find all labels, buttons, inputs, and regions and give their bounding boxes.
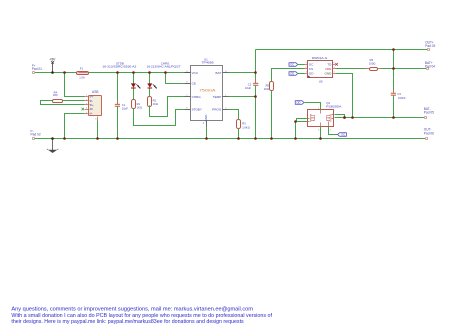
svg-text:6: 6 [333, 63, 334, 65]
svg-text:4: 4 [86, 108, 87, 110]
svg-text:1.0A: 1.0A [79, 75, 85, 79]
svg-text:3: 3 [86, 103, 87, 105]
svg-text:CS: CS [309, 67, 313, 71]
svg-text:DW01A-G: DW01A-G [312, 56, 328, 60]
svg-text:3: 3 [306, 72, 307, 74]
svg-text:R6: R6 [370, 58, 374, 62]
svg-text:OD: OD [290, 72, 294, 76]
svg-text:1: 1 [306, 63, 307, 65]
svg-text:1: 1 [86, 95, 87, 97]
svg-text:OC: OC [290, 63, 294, 67]
svg-text:BAT: BAT [216, 71, 222, 75]
svg-text:100Ω: 100Ω [369, 62, 376, 66]
svg-text:16-213/SDRC/S530-A3: 16-213/SDRC/S530-A3 [103, 66, 138, 69]
svg-text:1: 1 [330, 129, 331, 131]
svg-text:With a small donation I can al: With a small donation I can also do PCB … [11, 313, 272, 319]
svg-text:200: 200 [53, 93, 58, 97]
svg-text:VCC: VCC [192, 71, 199, 75]
svg-text:GND: GND [204, 114, 208, 122]
svg-text:10uF: 10uF [245, 86, 251, 90]
svg-text:FS8205A: FS8205A [326, 105, 341, 109]
svg-text:OC: OC [341, 133, 345, 137]
svg-text:100nF: 100nF [398, 96, 406, 100]
svg-text:OC: OC [309, 62, 314, 66]
svg-text:PROG: PROG [212, 107, 222, 111]
svg-text:5: 5 [318, 108, 319, 110]
svg-text:U5: U5 [319, 80, 323, 84]
svg-text:USB: USB [92, 90, 99, 94]
svg-text:2: 2 [306, 67, 307, 69]
svg-text:1KΩ: 1KΩ [137, 106, 142, 110]
svg-text:their designs. Here is my payp: their designs. Here is my paypal.me link… [11, 319, 244, 325]
svg-text:750mA: 750mA [199, 88, 216, 92]
svg-text:TEMP: TEMP [213, 95, 222, 99]
svg-text:2: 2 [225, 107, 227, 109]
svg-text:R2: R2 [153, 98, 157, 102]
svg-text:Pad 01: Pad 01 [32, 67, 42, 71]
svg-text:16-213/SHC-AN1/PQ/2T: 16-213/SHC-AN1/PQ/2T [147, 66, 182, 69]
svg-text:10uF: 10uF [122, 107, 128, 111]
svg-text:4: 4 [333, 72, 334, 74]
svg-text:C3: C3 [397, 92, 401, 96]
svg-text:C1: C1 [122, 103, 126, 107]
svg-text:TP4056: TP4056 [201, 61, 214, 65]
svg-text:5: 5 [86, 112, 87, 114]
svg-text:R3: R3 [242, 122, 246, 126]
svg-text:3: 3 [318, 129, 319, 131]
svg-text:+5V: +5V [49, 57, 56, 61]
svg-text:Pad 06: Pad 06 [424, 131, 434, 135]
svg-text:OD: OD [309, 71, 314, 75]
svg-text:V+: V+ [90, 94, 94, 98]
svg-text:2: 2 [86, 99, 87, 101]
svg-text:STDBY: STDBY [192, 107, 202, 111]
svg-text:OD: OD [296, 101, 300, 105]
svg-text:C2: C2 [248, 83, 252, 87]
svg-text:F1: F1 [80, 67, 84, 71]
svg-text:6: 6 [186, 107, 188, 109]
svg-text:Pad 02: Pad 02 [31, 133, 41, 137]
svg-text:Pad 04: Pad 04 [425, 64, 435, 68]
svg-text:R5: R5 [266, 84, 270, 88]
svg-text:3: 3 [203, 123, 205, 125]
svg-text:CE: CE [192, 82, 196, 86]
svg-text:Any questions, comments or imp: Any questions, comments or improvement s… [11, 307, 253, 313]
svg-text:GND: GND [325, 71, 333, 75]
svg-text:6: 6 [95, 119, 96, 121]
svg-text:1.6KΩ: 1.6KΩ [242, 125, 250, 129]
svg-text:1KΩ: 1KΩ [264, 87, 269, 91]
svg-text:Pad 03: Pad 03 [425, 44, 435, 48]
svg-text:VDD: VDD [325, 67, 332, 71]
svg-text:5: 5 [333, 67, 334, 69]
svg-text:Pad 05: Pad 05 [424, 111, 434, 115]
svg-text:1KΩ: 1KΩ [153, 102, 158, 106]
svg-text:R1: R1 [137, 102, 141, 106]
svg-text:V-: V- [90, 111, 93, 115]
svg-text:CHRG: CHRG [192, 95, 202, 99]
